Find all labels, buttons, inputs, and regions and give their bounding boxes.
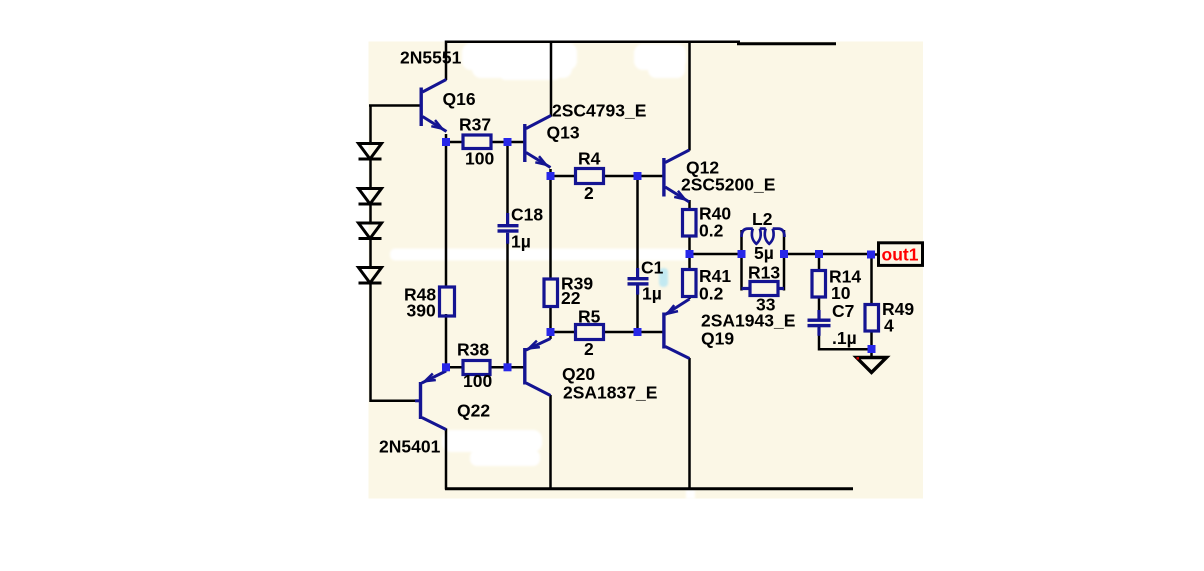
svg-text:0.2: 0.2 bbox=[699, 221, 724, 241]
ground bbox=[857, 357, 887, 373]
wire mid node to R41 bbox=[688, 254, 691, 270]
diode D4 bbox=[359, 268, 382, 284]
wire C7 to ground node bbox=[818, 348, 872, 351]
node L2 left bbox=[738, 250, 746, 258]
transistor Q12 bbox=[664, 150, 689, 202]
wire Q13 emitter / R39 column bbox=[549, 169, 552, 279]
node Q16 emitter / R37 / R48 bbox=[442, 138, 450, 146]
wire Q13 collector to top rail bbox=[550, 41, 553, 117]
svg-text:4: 4 bbox=[884, 316, 894, 336]
wire R48 to R38 node bbox=[445, 314, 448, 367]
svg-text:L2: L2 bbox=[752, 209, 773, 229]
wire node to Q22 emitter bbox=[445, 367, 448, 371]
wire R40 to mid node bbox=[688, 236, 691, 255]
resistor R14 bbox=[812, 271, 826, 298]
transistor Q13 bbox=[525, 116, 551, 168]
svg-text:10: 10 bbox=[831, 283, 851, 303]
svg-text:C7: C7 bbox=[832, 301, 854, 321]
node R39 / R5 / Q20 emitter bbox=[547, 328, 555, 336]
wire R49 to ground node bbox=[870, 331, 873, 349]
svg-text:2SC4793_E: 2SC4793_E bbox=[552, 101, 646, 121]
node L2 right bbox=[780, 250, 788, 258]
wire R41 to Q19 emitter bbox=[688, 297, 691, 300]
wire R38 right lead to Q20 base bbox=[490, 366, 524, 369]
node R37 / C18 bbox=[504, 138, 512, 146]
wire Q16 base bbox=[369, 104, 420, 107]
resistor R39 bbox=[544, 279, 558, 307]
svg-text:2N5401: 2N5401 bbox=[379, 437, 441, 457]
svg-text:2: 2 bbox=[584, 183, 594, 203]
node R48 / R38 / Q22 emitter bbox=[442, 363, 450, 371]
wire out1 node to R49 bbox=[870, 254, 873, 305]
resistor R41 bbox=[683, 270, 697, 297]
resistor R38 bbox=[463, 361, 490, 375]
wire D1-D2 bbox=[369, 159, 372, 189]
svg-text:out1: out1 bbox=[882, 244, 919, 264]
svg-text:22: 22 bbox=[561, 288, 581, 308]
svg-text:Q16: Q16 bbox=[443, 89, 476, 109]
svg-text:2SC5200_E: 2SC5200_E bbox=[681, 175, 775, 195]
capacitor C7 bbox=[808, 310, 831, 336]
node R5 / C1 / Q19 base bbox=[634, 328, 642, 336]
wire R14 to C7 bbox=[818, 297, 821, 318]
wire R37 left lead bbox=[446, 141, 463, 144]
wire Q20 emitter stub bbox=[549, 332, 552, 339]
resistor R37 bbox=[463, 135, 491, 149]
svg-text:Q13: Q13 bbox=[547, 122, 580, 142]
svg-text:390: 390 bbox=[407, 300, 436, 320]
wire R5 left lead bbox=[551, 331, 576, 334]
node R38 / C18 / Q20 base bbox=[504, 363, 512, 371]
inductor L2 bbox=[742, 229, 785, 244]
wire L2 block to out1 node bbox=[784, 253, 871, 256]
svg-text:5µ: 5µ bbox=[754, 243, 774, 263]
wire R4 left lead bbox=[551, 175, 576, 178]
svg-text:C1: C1 bbox=[641, 258, 664, 278]
wire ground node stub bbox=[870, 349, 873, 357]
wire C1 top bbox=[636, 176, 639, 277]
wire mid node to L2 block bbox=[690, 253, 742, 256]
node R14 top bbox=[815, 250, 823, 258]
wire D4 to Q22 base corner bbox=[371, 283, 416, 401]
wire Q19 collector to bottom rail bbox=[688, 358, 691, 490]
capacitor C18 bbox=[498, 213, 519, 244]
wire Q22 collector to bottom rail bbox=[445, 429, 448, 490]
resistor R13 bbox=[742, 282, 785, 296]
svg-text:R37: R37 bbox=[459, 115, 491, 135]
wire C7 bottom bbox=[818, 327, 821, 351]
transistor Q20 bbox=[525, 339, 551, 396]
wire R37 right lead to Q13 base bbox=[491, 141, 524, 144]
node R40 / R41 / L2 wire bbox=[686, 250, 694, 258]
svg-text:2N5551: 2N5551 bbox=[400, 48, 462, 68]
wire Q16 emitter to R48 bbox=[445, 134, 448, 288]
svg-text:0.2: 0.2 bbox=[699, 284, 724, 304]
svg-text:1µ: 1µ bbox=[642, 284, 662, 304]
transistor Q22 bbox=[415, 371, 446, 430]
svg-text:Q19: Q19 bbox=[701, 328, 734, 348]
wire Q12 collector to top rail bbox=[688, 43, 691, 151]
wire C18 top bbox=[506, 142, 509, 216]
svg-text:2SA1943_E: 2SA1943_E bbox=[701, 310, 795, 330]
wire R4 right lead to Q12 base bbox=[604, 175, 663, 178]
wire C18 bottom to R38 node bbox=[506, 241, 509, 367]
svg-text:Q22: Q22 bbox=[457, 401, 490, 421]
svg-text:2SA1837_E: 2SA1837_E bbox=[563, 383, 657, 403]
svg-text:R38: R38 bbox=[457, 340, 489, 360]
wire out1 node to label bbox=[871, 253, 879, 256]
wire R39 bottom to R5 node bbox=[549, 307, 552, 333]
wire Q19 base bbox=[638, 331, 663, 334]
wire R38 left lead bbox=[446, 366, 463, 369]
resistor R40 bbox=[683, 210, 697, 237]
wire Q12 emitter to R40 bbox=[688, 200, 691, 210]
wire D2-D3 bbox=[369, 204, 372, 223]
wire L2 block left vertical bbox=[740, 230, 743, 291]
svg-text:R13: R13 bbox=[748, 263, 780, 283]
resistor R48 bbox=[440, 287, 455, 316]
svg-text:100: 100 bbox=[463, 371, 492, 391]
capacitor C1 bbox=[628, 268, 649, 295]
node out1 bbox=[867, 251, 875, 259]
svg-text:100: 100 bbox=[465, 149, 494, 169]
svg-text:R5: R5 bbox=[578, 307, 601, 327]
out1 label box bbox=[879, 243, 923, 266]
svg-text:2: 2 bbox=[584, 339, 594, 359]
node R4 / C1 / Q12 base bbox=[634, 172, 642, 180]
svg-text:C18: C18 bbox=[511, 205, 543, 225]
svg-text:R4: R4 bbox=[578, 149, 601, 169]
diode D1 bbox=[359, 144, 382, 160]
svg-text:.1µ: .1µ bbox=[832, 328, 857, 348]
svg-text:Q20: Q20 bbox=[562, 364, 595, 384]
resistor R5 bbox=[576, 325, 604, 340]
transistor Q16 bbox=[421, 80, 446, 132]
node Q13 emitter / R4 / R39 bbox=[547, 172, 555, 180]
wire C1 bottom bbox=[636, 286, 639, 333]
diode D3 bbox=[359, 223, 382, 239]
transistor Q19 bbox=[664, 299, 690, 359]
diode D2 bbox=[359, 189, 382, 205]
wire diode chain top bbox=[369, 105, 372, 144]
wire Q20 collector to bottom rail bbox=[549, 395, 552, 490]
resistor R4 bbox=[576, 169, 604, 184]
svg-text:1µ: 1µ bbox=[511, 232, 531, 252]
node ground bbox=[868, 345, 876, 353]
wire R5 right lead bbox=[604, 331, 638, 334]
wire R14 top lead bbox=[818, 254, 821, 271]
wire bottom rail bbox=[445, 487, 853, 490]
wire top rail left segment bbox=[446, 42, 740, 80]
wire D3-D4 bbox=[369, 238, 372, 268]
resistor R49 bbox=[865, 305, 879, 332]
wire top rail right segment bbox=[737, 42, 836, 45]
wire L2 block right vertical bbox=[783, 230, 786, 291]
